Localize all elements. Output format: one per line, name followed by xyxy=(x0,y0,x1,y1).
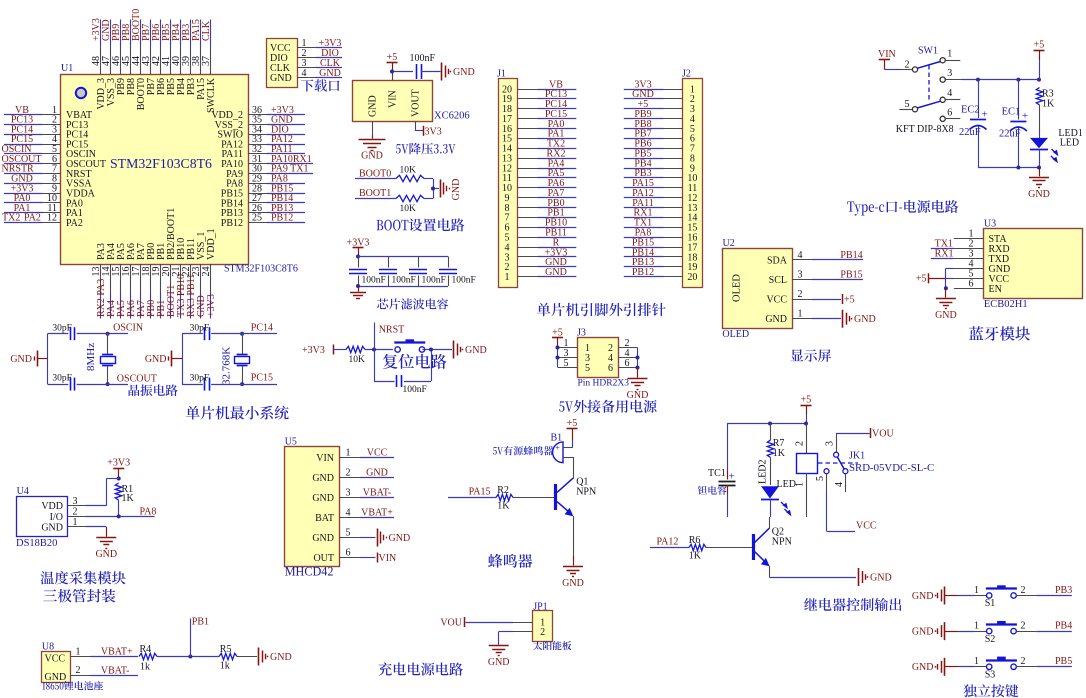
svg-text:5: 5 xyxy=(815,476,826,481)
J2 pin 5 xyxy=(664,124,695,135)
svg-text:1K: 1K xyxy=(122,493,135,504)
U1 pin 42 PB6 xyxy=(151,45,167,95)
svg-text:22uF: 22uF xyxy=(999,129,1021,140)
svg-text:3V3: 3V3 xyxy=(425,126,442,137)
U1 pin 4 PC15 xyxy=(43,134,89,150)
svg-text:PB12: PB12 xyxy=(221,218,243,229)
svg-text:3: 3 xyxy=(73,496,78,507)
svg-text:PA12: PA12 xyxy=(657,537,679,548)
connector J3 body xyxy=(577,327,619,377)
J1 pin 8 xyxy=(505,203,538,214)
J2 pin 20 xyxy=(664,272,698,283)
power +3V3 port filter xyxy=(347,237,370,258)
wire junction to GND xyxy=(424,179,439,199)
svg-text:GND: GND xyxy=(912,627,934,638)
wire net GND xyxy=(316,68,343,79)
wire net PB8 to U1 pin 45 xyxy=(121,20,132,46)
svg-text:+5: +5 xyxy=(567,418,578,429)
wire net PB7 to U1 pin 43 xyxy=(141,20,152,46)
ground GND below regulator xyxy=(359,121,386,161)
svg-text:GND: GND xyxy=(41,522,63,533)
U1 pin 44 BOOT0 xyxy=(131,45,147,110)
capacitor EC1 22uF xyxy=(999,80,1028,168)
svg-text:+5: +5 xyxy=(387,52,398,63)
J1 pin 6 xyxy=(505,223,538,234)
wire S3 pin2 net PB5 xyxy=(1016,656,1072,667)
svg-text:1K: 1K xyxy=(497,500,510,511)
U1 pin 40 PB4 xyxy=(171,45,187,95)
capacitor 100nF filter 1 xyxy=(349,257,386,287)
svg-text:VOU: VOU xyxy=(872,429,894,440)
U1 pin 30 PA9 xyxy=(226,164,266,180)
svg-text:25: 25 xyxy=(252,213,262,224)
svg-text:KFT DIP-8X8: KFT DIP-8X8 xyxy=(896,124,954,135)
wire net PA8 J2 xyxy=(624,228,664,239)
U1 pin 32 PA11 xyxy=(222,144,267,160)
node BOOT1 wire xyxy=(355,188,396,199)
U3 pin 3 TXD xyxy=(954,249,1009,265)
J3 pin 4 xyxy=(618,348,638,359)
svg-text:LED2: LED2 xyxy=(758,460,769,484)
J1 pin 19 xyxy=(502,94,538,105)
svg-text:U5: U5 xyxy=(285,436,297,447)
svg-text:SW1: SW1 xyxy=(918,45,938,56)
value solar panel xyxy=(533,641,571,650)
svg-text:GND: GND xyxy=(765,314,787,325)
capacitor 100nF reset xyxy=(374,348,433,395)
J2 pin 17 xyxy=(664,242,698,253)
svg-text:LED: LED xyxy=(777,479,796,490)
J2 pin 19 xyxy=(664,262,698,273)
svg-text:1k: 1k xyxy=(220,660,230,671)
svg-text:GND: GND xyxy=(912,662,934,673)
U1 pin 1 VBAT xyxy=(43,105,93,121)
svg-text:J2: J2 xyxy=(682,69,691,80)
J2 pin 16 xyxy=(664,233,698,244)
ground GND crystal2 xyxy=(145,351,182,367)
wire net RX3 PB11 to U1 pin 22 xyxy=(186,274,197,319)
svg-text:1: 1 xyxy=(974,585,979,596)
svg-text:4: 4 xyxy=(947,88,952,99)
svg-text:+3V3: +3V3 xyxy=(302,345,325,356)
svg-text:VIN: VIN xyxy=(379,553,397,564)
wire +5 bus J3 xyxy=(556,346,560,368)
J1 pin 17 xyxy=(502,114,538,125)
resistor 10K BOOT1 xyxy=(396,195,424,214)
wire net GND to U1 pin 35 xyxy=(267,115,306,126)
wire net PC14 J1 xyxy=(538,99,577,110)
wire net PA11 to U1 pin 32 xyxy=(267,144,306,155)
resistor R7 1K xyxy=(767,424,785,486)
wire net GND to U1 pin 23 xyxy=(196,293,207,319)
svg-text:BOOT1: BOOT1 xyxy=(359,188,391,199)
U3 pin 1 STA xyxy=(954,229,1007,245)
download-port pin 4 xyxy=(297,68,316,79)
caption transistor package xyxy=(43,589,115,603)
svg-text:2: 2 xyxy=(905,59,910,70)
svg-text:30pF: 30pF xyxy=(52,374,72,384)
svg-text:2: 2 xyxy=(1021,621,1026,632)
svg-text:GND: GND xyxy=(545,267,567,278)
svg-text:1K: 1K xyxy=(773,448,786,459)
ground GND OLED xyxy=(812,310,876,328)
wire net OSCIN to U1 pin 5 xyxy=(2,144,43,155)
JP1 pin 1 wire VOU xyxy=(440,617,532,629)
wire net PA11 J2 xyxy=(624,198,664,209)
wire net RX2 PA3 to U1 pin 13 xyxy=(96,279,107,319)
caption Type-c power circuit xyxy=(847,200,958,216)
svg-text:2: 2 xyxy=(795,441,806,446)
svg-text:MHCD42: MHCD42 xyxy=(285,565,334,579)
U1 pin 35 VSS_2 xyxy=(215,115,267,131)
wire net PB0 to U1 pin 18 xyxy=(146,293,157,319)
svg-text:+5: +5 xyxy=(1034,40,1045,51)
svg-text:6: 6 xyxy=(608,363,613,374)
ground GND crystal1 xyxy=(10,351,47,367)
svg-text:1: 1 xyxy=(73,517,78,528)
resistor R3 1K xyxy=(1036,88,1055,130)
wire switch pin3 to +5 rail xyxy=(962,78,1041,82)
wire net VBAT+ xyxy=(91,647,139,658)
display U2 OLED body xyxy=(722,238,792,340)
svg-text:30pF: 30pF xyxy=(190,374,210,384)
svg-text:1: 1 xyxy=(974,621,979,632)
resistor R1 1K xyxy=(115,483,134,516)
wire net PB0 J1 xyxy=(538,198,577,209)
caption MCU pin headers xyxy=(537,303,666,316)
svg-text:Pin HDR2X3: Pin HDR2X3 xyxy=(578,379,630,389)
svg-text:10K: 10K xyxy=(349,355,366,365)
svg-text:VCC: VCC xyxy=(367,448,388,459)
svg-text:GND: GND xyxy=(145,354,167,365)
svg-text:VOUT: VOUT xyxy=(411,89,422,117)
svg-text:2: 2 xyxy=(76,665,81,676)
J1 pin 3 xyxy=(505,252,538,263)
power +3V3 reset xyxy=(302,345,346,356)
switch reset button xyxy=(394,339,425,352)
svg-text:22uF: 22uF xyxy=(959,127,981,138)
wire net +5 J2 xyxy=(624,99,664,110)
wire net PB1 J1 xyxy=(538,208,577,219)
U1 pin 17 PA7 xyxy=(131,243,147,293)
svg-text:+5: +5 xyxy=(916,274,927,285)
svg-text:+5: +5 xyxy=(844,295,855,306)
ground GND button S2 xyxy=(912,622,958,640)
svg-text:PB14: PB14 xyxy=(840,250,862,261)
svg-text:3: 3 xyxy=(947,68,952,79)
caption MCU minimum system xyxy=(186,406,289,420)
resistor 10K BOOT0 xyxy=(396,166,424,182)
wire gnd to S2 pin1 xyxy=(958,621,987,632)
caption charge power circuit xyxy=(378,662,462,675)
J2 pin 14 xyxy=(664,213,698,224)
wire net RX1 xyxy=(931,248,954,259)
svg-text:EN: EN xyxy=(989,284,1002,295)
svg-text:OLED: OLED xyxy=(722,329,749,340)
svg-text:3: 3 xyxy=(798,269,803,280)
svg-text:30pF: 30pF xyxy=(190,324,210,334)
wire net VBAT- U5 xyxy=(360,488,394,499)
svg-text:+: + xyxy=(982,109,988,121)
value 18650 battery holder xyxy=(42,681,103,690)
svg-text:VDD: VDD xyxy=(41,501,63,512)
download-port pin 3 xyxy=(297,58,316,69)
wire net +3V3 to U1 pin 9 xyxy=(4,183,43,194)
U2 pin 1 GND xyxy=(765,309,811,326)
wire net VB to U1 pin 1 xyxy=(4,105,43,116)
svg-text:5: 5 xyxy=(564,358,569,369)
svg-text:GND: GND xyxy=(95,549,117,560)
svg-text:37: 37 xyxy=(201,56,212,66)
wire net +3V3 xyxy=(316,38,343,49)
wire net DIO to U1 pin 34 xyxy=(267,124,306,135)
U1 pin 23 VSS_1 xyxy=(191,232,207,293)
wire net CLK to U1 pin 37 xyxy=(201,20,212,46)
module U3 ECB02H1 body xyxy=(984,218,1083,310)
wire net PB14 to U1 pin 27 xyxy=(267,193,306,204)
svg-text:VCC: VCC xyxy=(45,653,66,664)
svg-text:GND: GND xyxy=(45,672,67,683)
battery U8 18650 body xyxy=(42,641,71,683)
power VIN U5 pin6 xyxy=(360,553,396,565)
switch S3 xyxy=(985,657,1017,681)
wire net PA4 J1 xyxy=(538,158,577,169)
wire net PA12 J2 xyxy=(624,188,664,199)
U1 pin 41 PB5 xyxy=(161,45,177,95)
svg-text:3: 3 xyxy=(825,441,836,446)
wire net BOOT0 to U1 pin 44 xyxy=(131,9,142,45)
svg-text:PB4: PB4 xyxy=(1055,621,1072,632)
svg-text:SWCLK: SWCLK xyxy=(206,77,217,113)
caption reset circuit xyxy=(383,354,447,369)
svg-text:3: 3 xyxy=(346,488,351,499)
power +5 U3 xyxy=(916,273,954,284)
svg-text:1: 1 xyxy=(798,309,803,320)
svg-text:+: + xyxy=(555,444,560,453)
U1 pin 47 VSS_3 xyxy=(101,45,117,106)
svg-text:1k: 1k xyxy=(140,661,150,672)
svg-text:R4: R4 xyxy=(140,644,152,655)
wire net PA15 J2 xyxy=(624,178,664,189)
wire buzzer to Q1 collector xyxy=(573,457,575,479)
resistor 10K reset xyxy=(346,346,365,365)
node PC14 xyxy=(240,323,278,336)
U3 pin 5 VCC xyxy=(954,269,1009,285)
svg-text:GND: GND xyxy=(10,354,32,365)
connector J2 body xyxy=(682,69,703,288)
U2 pin 2 VCC xyxy=(766,289,811,306)
svg-text:VIN: VIN xyxy=(316,453,334,464)
wire net PA5 to U1 pin 15 xyxy=(116,293,127,319)
J1 pin 15 xyxy=(502,134,538,145)
U2 pin 3 SCL xyxy=(769,269,812,286)
svg-text:VCC: VCC xyxy=(856,520,877,531)
regulator U? XC6206 body xyxy=(353,81,470,122)
node BOOT0 wire xyxy=(355,169,396,180)
svg-text:PB12: PB12 xyxy=(271,213,293,224)
svg-text:5: 5 xyxy=(585,363,590,374)
wire button to gnd xyxy=(423,349,453,351)
wire net NRSTR to U1 pin 7 xyxy=(2,164,43,175)
svg-text:SRD-05VDC-SL-C: SRD-05VDC-SL-C xyxy=(849,462,934,474)
wire relay top rail xyxy=(727,422,808,426)
svg-text:DS18B20: DS18B20 xyxy=(16,538,57,549)
U5 pin 4 BAT xyxy=(315,508,360,525)
wire net PA8 xyxy=(86,507,157,519)
wire net PB15 xyxy=(812,269,864,280)
download-port pin 2 xyxy=(297,48,316,59)
ground GND U5 pin5 xyxy=(360,529,410,547)
svg-text:PB5: PB5 xyxy=(1055,656,1072,667)
power VOU relay xyxy=(836,428,894,440)
connector J1 body xyxy=(497,69,518,288)
svg-text:XC6206: XC6206 xyxy=(434,111,470,122)
wire net PB3 to U1 pin 39 xyxy=(181,20,192,46)
svg-text:1K: 1K xyxy=(1042,99,1055,110)
svg-text:PC14: PC14 xyxy=(251,323,273,334)
wire GND pin4 to EN xyxy=(944,268,954,290)
svg-text:GND: GND xyxy=(451,179,462,201)
wire net GND J1 xyxy=(538,267,577,278)
svg-text:GND: GND xyxy=(312,493,334,504)
J2 pin 9 xyxy=(664,163,695,174)
transistor Q2 NPN xyxy=(754,517,792,577)
wire net PC15 J1 xyxy=(538,109,577,120)
svg-text:STM32F103C8T6: STM32F103C8T6 xyxy=(110,156,212,171)
svg-text:OUT: OUT xyxy=(313,553,334,564)
svg-text:S2: S2 xyxy=(985,634,996,645)
switch S2 xyxy=(985,621,1017,645)
svg-text:NPN: NPN xyxy=(772,536,792,547)
svg-text:2: 2 xyxy=(540,627,545,638)
svg-text:100nF: 100nF xyxy=(403,385,427,395)
wire net PB9 J2 xyxy=(624,109,664,120)
wire net PA0 J1 xyxy=(538,119,577,130)
power +5 port xyxy=(387,52,398,71)
wire net PB14 J2 xyxy=(624,247,664,258)
svg-text:1: 1 xyxy=(346,448,351,459)
svg-text:JK1: JK1 xyxy=(849,450,865,461)
wire net RX1 J2 xyxy=(624,208,664,219)
U4 pin 3 xyxy=(68,496,86,507)
wire filter bottom bus xyxy=(356,284,448,288)
resistor R5 1k xyxy=(219,644,237,671)
caption temperature module xyxy=(41,571,126,584)
ground GND solar xyxy=(488,643,510,668)
U1 pin 28 PB15 xyxy=(221,183,267,199)
crystal Y2 32.768K xyxy=(221,334,250,385)
svg-text:CLK: CLK xyxy=(201,20,212,41)
U1 pin 24 VDD_1 xyxy=(201,228,217,293)
svg-text:2: 2 xyxy=(346,468,351,479)
svg-text:+3V3: +3V3 xyxy=(206,294,217,317)
U4 pin 1 xyxy=(68,517,86,528)
op-amp U1 STM32F103C8T6 body xyxy=(61,63,298,275)
wire S1 pin2 net PB3 xyxy=(1016,585,1072,596)
svg-text:GND: GND xyxy=(366,468,388,479)
svg-text:5: 5 xyxy=(346,528,351,539)
wire net PB11 J1 xyxy=(538,228,577,239)
svg-text:GND: GND xyxy=(270,652,292,663)
wire net PA0 to U1 pin 10 xyxy=(4,193,43,204)
wire net PB4 J2 xyxy=(624,158,664,169)
svg-text:GND: GND xyxy=(453,67,475,78)
wire Q2 emitter to gnd xyxy=(769,577,856,579)
svg-text:U3: U3 xyxy=(984,218,996,229)
U1 pin 9 VDDA xyxy=(43,183,96,199)
resistor R4 1k xyxy=(139,644,157,672)
wire net PB12 to U1 pin 25 xyxy=(267,213,306,224)
wire net +3V3 to U1 pin 48 xyxy=(91,18,102,45)
svg-text:VBAT-: VBAT- xyxy=(101,665,130,676)
U1 pin 2 PC13 xyxy=(43,115,89,131)
wire R5 to gnd xyxy=(237,656,257,658)
wire net VCC U5 xyxy=(360,448,394,459)
svg-text:GND: GND xyxy=(854,314,876,325)
node PB1 xyxy=(157,617,219,659)
svg-text:TX2: TX2 xyxy=(2,213,20,224)
svg-text:BAT: BAT xyxy=(315,513,334,524)
wire net PB13 to U1 pin 26 xyxy=(267,203,306,214)
ground GND charge xyxy=(259,648,292,666)
ground GND right of cap xyxy=(421,63,474,81)
wire net PA12 to U1 pin 33 xyxy=(267,134,306,145)
J1 pin 2 xyxy=(505,262,538,273)
J2 pin 6 xyxy=(664,134,695,145)
svg-text:LED: LED xyxy=(1060,138,1079,149)
crystal circuit 32.768K xyxy=(182,334,184,384)
wire net PC15 to U1 pin 4 xyxy=(4,134,43,145)
wire net PC13 J1 xyxy=(538,89,577,100)
wire filter top bus xyxy=(358,256,448,258)
J2 pin 11 xyxy=(664,183,698,194)
wire net PA1 to U1 pin 11 xyxy=(4,203,43,214)
wire net 3V3 J2 xyxy=(624,79,664,90)
caption BOOT setup circuit xyxy=(377,218,465,231)
svg-text:100nF: 100nF xyxy=(392,275,416,285)
ground GND J3 xyxy=(627,368,649,402)
U8 pin 2 xyxy=(71,665,91,676)
U1 pin 25 PB12 xyxy=(221,213,267,229)
wire net PB9 to U1 pin 46 xyxy=(111,20,122,46)
J2 pin 18 xyxy=(664,252,698,263)
svg-text:I/O: I/O xyxy=(50,512,63,523)
wire net PA6 J1 xyxy=(538,178,577,189)
J1 pin 1 xyxy=(505,272,538,283)
U1 pin 7 NRST xyxy=(43,164,92,180)
svg-text:NRST: NRST xyxy=(379,324,405,335)
svg-text:S1: S1 xyxy=(985,598,996,609)
power +3V3 DS18B20 xyxy=(107,458,130,481)
ground GND U3 xyxy=(935,288,957,321)
power +5 buzzer xyxy=(567,418,578,448)
caption xiazaikou xyxy=(301,79,339,91)
J1 pin 16 xyxy=(502,124,538,135)
U1 pin 48 VDD_3 xyxy=(91,45,107,110)
caption independent buttons xyxy=(963,684,1018,697)
svg-text:4: 4 xyxy=(302,68,307,79)
svg-text:100nF: 100nF xyxy=(410,53,436,64)
svg-text:GND: GND xyxy=(368,95,379,117)
J1 pin 9 xyxy=(505,193,538,204)
svg-text:+: + xyxy=(729,471,735,483)
U5 pin 3 GND xyxy=(312,488,360,505)
U1 pin 6 OSCOUT xyxy=(43,154,107,170)
wire net GND to U1 pin 47 xyxy=(101,19,112,45)
wire net PB5 J2 xyxy=(624,148,664,159)
svg-text:GND: GND xyxy=(870,572,892,583)
svg-text:6: 6 xyxy=(625,358,630,369)
